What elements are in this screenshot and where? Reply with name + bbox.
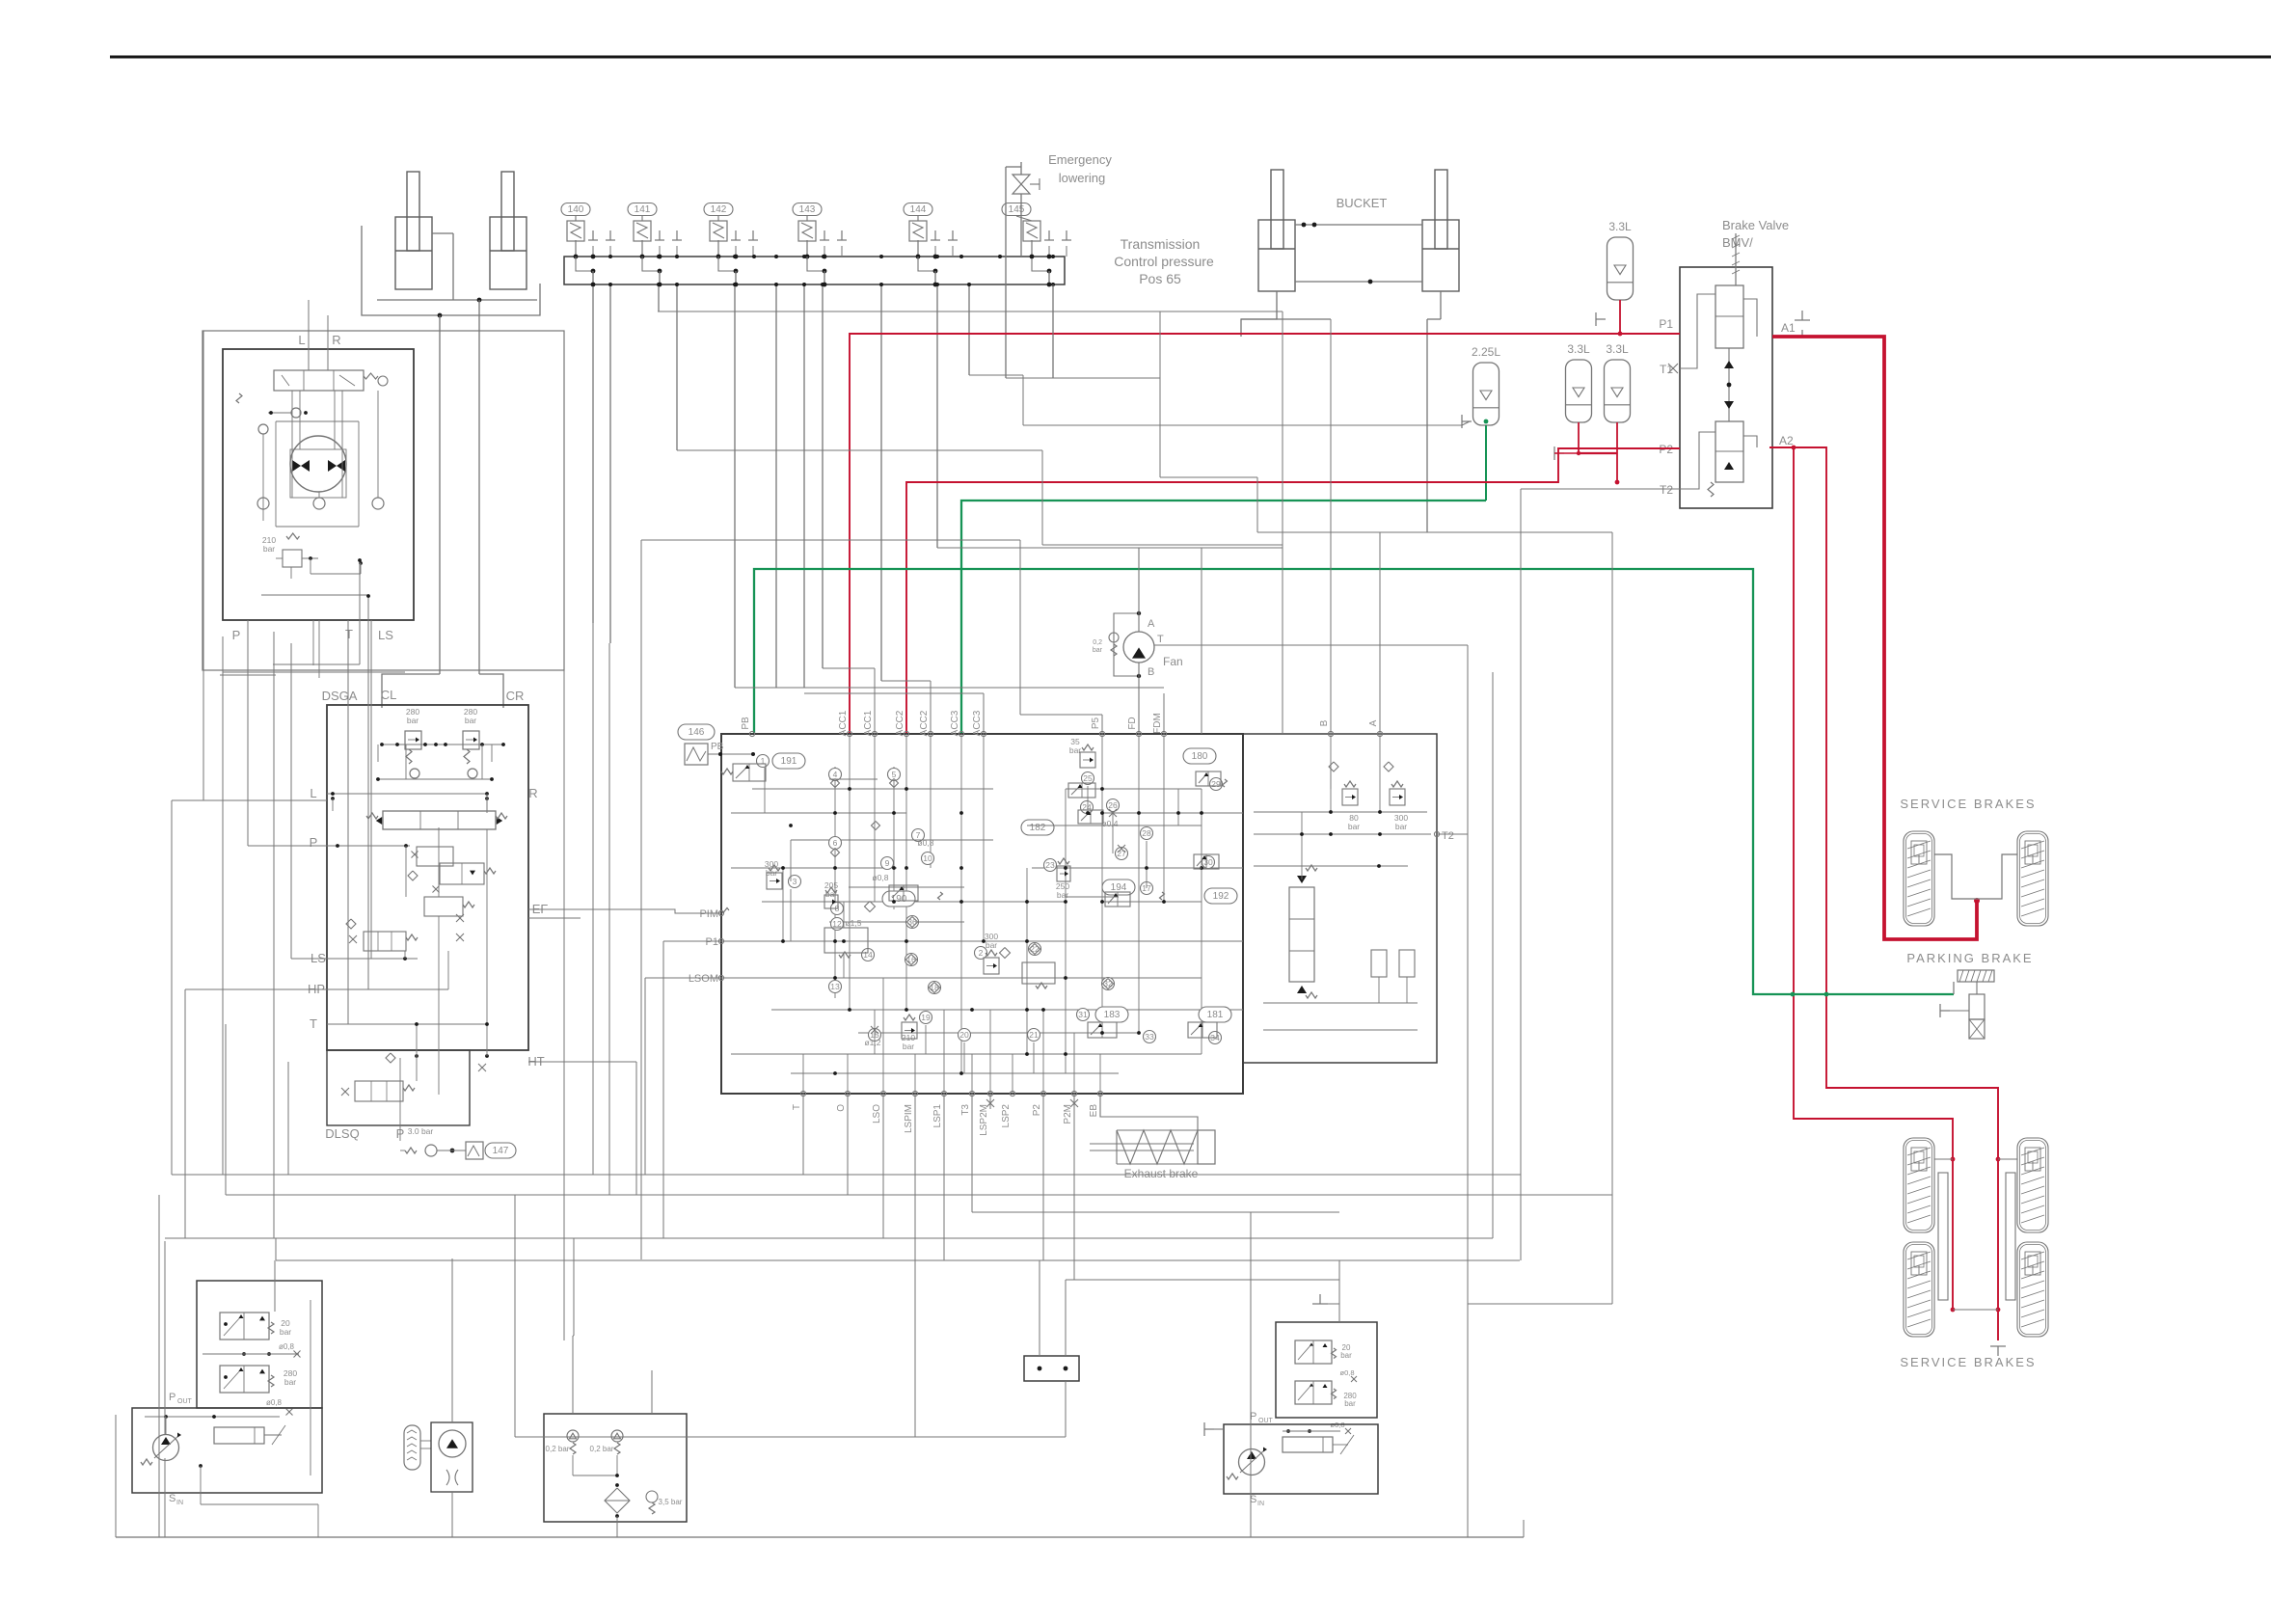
svg-text:T1: T1	[1660, 363, 1673, 376]
svg-text:IN: IN	[1257, 1501, 1264, 1507]
svg-text:183: 183	[1104, 1010, 1121, 1020]
svg-text:bar: bar	[1069, 745, 1081, 755]
svg-text:LSP2: LSP2	[1001, 1104, 1012, 1128]
svg-text:SERVICE BRAKES: SERVICE BRAKES	[1900, 797, 2036, 811]
svg-text:bar: bar	[903, 1042, 914, 1051]
svg-text:191: 191	[781, 756, 797, 767]
svg-text:180: 180	[1192, 751, 1208, 762]
svg-text:ø0,4: ø0,4	[1101, 819, 1118, 828]
svg-text:3.3L: 3.3L	[1606, 342, 1629, 356]
svg-text:A: A	[1148, 618, 1155, 630]
svg-text:25: 25	[1083, 773, 1093, 783]
svg-text:ø1,2: ø1,2	[864, 1038, 880, 1047]
svg-text:DSGA: DSGA	[322, 689, 358, 703]
svg-text:3.0 bar: 3.0 bar	[408, 1126, 434, 1136]
svg-text:P2: P2	[1659, 443, 1673, 456]
svg-text:16: 16	[906, 955, 916, 964]
svg-text:IN: IN	[176, 1500, 183, 1506]
svg-text:Pos 65: Pos 65	[1139, 271, 1181, 286]
svg-text:6: 6	[833, 838, 838, 848]
svg-text:T: T	[792, 1104, 802, 1110]
svg-text:DLSQ: DLSQ	[325, 1126, 359, 1141]
svg-text:ø0,8: ø0,8	[1339, 1368, 1354, 1377]
svg-text:B: B	[1319, 719, 1330, 726]
svg-text:Emergency: Emergency	[1048, 152, 1112, 167]
svg-text:PB: PB	[711, 742, 724, 752]
svg-text:R: R	[332, 333, 340, 347]
svg-text:147: 147	[493, 1146, 509, 1156]
svg-text:28: 28	[1142, 828, 1151, 838]
svg-text:lowering: lowering	[1059, 171, 1105, 185]
svg-text:bar: bar	[825, 889, 837, 899]
svg-text:A2: A2	[1779, 434, 1794, 447]
svg-text:Brake Valve: Brake Valve	[1722, 218, 1789, 232]
svg-text:Fan: Fan	[1163, 655, 1183, 668]
svg-text:FD: FD	[1127, 717, 1138, 729]
svg-text:181: 181	[1207, 1010, 1224, 1020]
svg-text:P2: P2	[1032, 1104, 1042, 1117]
svg-text:Transmission: Transmission	[1121, 236, 1201, 252]
svg-text:CL: CL	[381, 688, 397, 702]
svg-text:22: 22	[1030, 944, 1040, 954]
svg-text:LSP1: LSP1	[932, 1104, 943, 1128]
svg-text:27: 27	[1117, 849, 1126, 858]
svg-text:21: 21	[1029, 1030, 1039, 1040]
svg-text:26: 26	[1108, 800, 1118, 810]
svg-text:bar: bar	[263, 544, 275, 554]
svg-text:Control pressure: Control pressure	[1114, 254, 1214, 269]
svg-text:ø0,8: ø0,8	[266, 1398, 283, 1407]
svg-text:bar: bar	[1093, 647, 1103, 654]
svg-text:ACC1: ACC1	[863, 710, 874, 736]
svg-text:FDM: FDM	[1152, 713, 1163, 734]
svg-text:P1: P1	[706, 936, 718, 948]
svg-text:T: T	[310, 1016, 317, 1031]
svg-text:P1: P1	[1659, 317, 1673, 331]
svg-text:bar: bar	[1344, 1399, 1356, 1408]
svg-text:142: 142	[711, 204, 727, 215]
svg-text:29: 29	[1211, 779, 1221, 789]
svg-text:P: P	[310, 835, 318, 850]
svg-text:T3: T3	[960, 1104, 971, 1116]
svg-text:3.3L: 3.3L	[1608, 220, 1632, 233]
svg-text:P5: P5	[1091, 717, 1101, 729]
svg-text:0,2 bar: 0,2 bar	[590, 1445, 614, 1453]
svg-text:P: P	[169, 1392, 176, 1403]
svg-text:ACC3: ACC3	[972, 710, 983, 736]
svg-text:T2: T2	[1442, 830, 1454, 842]
svg-text:2.25L: 2.25L	[1472, 345, 1500, 359]
svg-text:3: 3	[793, 877, 797, 886]
svg-text:A1: A1	[1781, 321, 1796, 335]
svg-text:P: P	[232, 628, 241, 642]
svg-text:5: 5	[892, 770, 897, 779]
svg-text:146: 146	[689, 727, 705, 738]
svg-text:32: 32	[1103, 979, 1113, 988]
svg-text:Exhaust brake: Exhaust brake	[1124, 1167, 1199, 1180]
svg-text:3,5 bar: 3,5 bar	[659, 1498, 683, 1506]
svg-text:LS: LS	[378, 628, 393, 642]
svg-text:3.3L: 3.3L	[1567, 342, 1590, 356]
svg-text:O: O	[836, 1104, 847, 1112]
svg-text:19: 19	[921, 1013, 931, 1022]
svg-text:144: 144	[910, 204, 927, 215]
svg-text:141: 141	[635, 204, 651, 215]
svg-text:ø1,5: ø1,5	[845, 918, 861, 928]
svg-text:BUCKET: BUCKET	[1337, 196, 1388, 210]
svg-text:R: R	[528, 786, 537, 800]
svg-text:18: 18	[930, 983, 939, 992]
svg-text:33: 33	[1145, 1032, 1154, 1042]
svg-text:ACC3: ACC3	[950, 710, 960, 736]
svg-text:bar: bar	[280, 1327, 291, 1337]
svg-text:bar: bar	[284, 1377, 296, 1387]
svg-text:ACC2: ACC2	[895, 710, 905, 736]
svg-text:SERVICE BRAKES: SERVICE BRAKES	[1900, 1355, 2036, 1369]
svg-text:10: 10	[923, 853, 932, 863]
svg-text:bar: bar	[1348, 822, 1360, 831]
svg-text:ø0,8: ø0,8	[279, 1342, 295, 1351]
svg-text:ACC1: ACC1	[838, 710, 849, 736]
svg-text:2: 2	[979, 948, 984, 958]
svg-text:0,2 bar: 0,2 bar	[546, 1445, 570, 1453]
svg-text:143: 143	[799, 204, 816, 215]
svg-text:13: 13	[830, 982, 840, 991]
svg-text:4: 4	[833, 770, 838, 779]
svg-text:LSP2M: LSP2M	[979, 1104, 989, 1136]
svg-text:PB: PB	[741, 717, 751, 730]
svg-text:bar: bar	[986, 940, 997, 950]
svg-text:ø0,8: ø0,8	[917, 838, 933, 848]
svg-text:ACC2: ACC2	[919, 710, 930, 736]
svg-text:0,2: 0,2	[1093, 639, 1102, 646]
svg-text:bar: bar	[1340, 1351, 1352, 1360]
svg-text:L: L	[310, 786, 316, 800]
svg-text:192: 192	[1213, 891, 1229, 902]
svg-text:T: T	[1157, 634, 1164, 645]
svg-text:OUT: OUT	[1258, 1418, 1274, 1424]
svg-text:P2M: P2M	[1063, 1104, 1073, 1124]
svg-text:BMV/: BMV/	[1722, 235, 1753, 250]
svg-text:OUT: OUT	[177, 1398, 193, 1405]
svg-text:145: 145	[1009, 204, 1025, 215]
svg-text:A: A	[1368, 719, 1379, 726]
svg-text:20: 20	[959, 1030, 969, 1040]
svg-text:EB: EB	[1089, 1104, 1099, 1118]
svg-text:36: 36	[907, 917, 917, 927]
svg-text:31: 31	[1078, 1010, 1088, 1019]
svg-text:S: S	[169, 1493, 176, 1504]
svg-text:L: L	[298, 333, 305, 347]
svg-text:PIM: PIM	[699, 908, 718, 920]
svg-text:LSOM: LSOM	[689, 973, 718, 985]
svg-text:CR: CR	[506, 689, 525, 703]
svg-text:9: 9	[885, 858, 890, 868]
svg-text:B: B	[1148, 666, 1154, 678]
svg-text:LSPIM: LSPIM	[904, 1104, 914, 1133]
svg-text:PARKING BRAKE: PARKING BRAKE	[1906, 951, 2033, 965]
svg-text:182: 182	[1030, 823, 1046, 833]
svg-text:23: 23	[1045, 860, 1055, 870]
svg-text:140: 140	[568, 204, 584, 215]
svg-text:bar: bar	[1395, 822, 1407, 831]
svg-text:T2: T2	[1660, 483, 1673, 497]
svg-text:bar: bar	[407, 716, 419, 725]
svg-text:T: T	[345, 627, 353, 641]
svg-text:bar: bar	[465, 716, 476, 725]
svg-text:ø0,8: ø0,8	[872, 873, 888, 882]
svg-text:LSO: LSO	[872, 1104, 882, 1123]
svg-text:bar: bar	[1057, 890, 1068, 900]
